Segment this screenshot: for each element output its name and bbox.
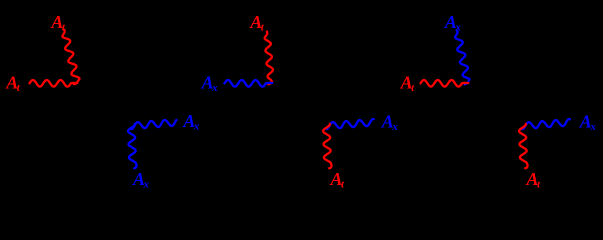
photon propagator A_x (horizontal right, #0000ff) (131, 120, 176, 129)
fermion line vertex1-vertex2 (black, invisible on background) (468, 85, 523, 124)
photon propagator A_t (vertical down, #ff0000) (323, 124, 332, 168)
fermion line vertex1-vertex2 (black, invisible on background) (272, 85, 327, 124)
photon propagator A_t (diagonal, #ff0000) (62, 30, 79, 85)
photon propagator A_t (diagonal, #ff0000) (265, 32, 273, 85)
photon propagator A_x (diagonal, #0000ff) (455, 31, 469, 85)
photon propagator A_x (horizontal right, #0000ff) (326, 119, 373, 129)
photon propagator A_x (horizontal right, #0000ff) (522, 119, 570, 129)
fermion line vertex1-vertex2 (black, invisible on background) (77, 85, 132, 124)
photon propagator A_t (vertical down, #ff0000) (519, 124, 528, 168)
photon propagator A_t (horizontal left, #ff0000) (30, 80, 78, 87)
photon propagator A_x (horizontal left, #0000ff) (225, 80, 273, 87)
photon propagator A_t (horizontal left, #ff0000) (421, 80, 469, 87)
photon propagator A_x (vertical down, #0000ff) (128, 124, 137, 168)
